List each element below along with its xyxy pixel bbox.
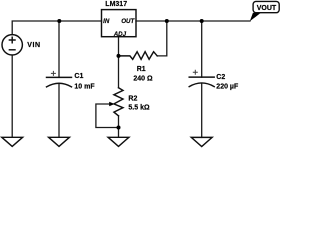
svg-text:5.5 kΩ: 5.5 kΩ — [128, 104, 150, 111]
svg-text:OUT: OUT — [121, 18, 135, 25]
svg-text:VIN: VIN — [27, 42, 40, 49]
ground under R2 — [108, 137, 129, 146]
capacitor C1 plus mark — [51, 71, 56, 76]
voltage source VIN circle — [2, 35, 22, 55]
wire C1 top branch — [58, 21, 60, 77]
wire C2 top branch — [201, 21, 203, 77]
wire LM317 ADJ stub — [118, 37, 120, 56]
op-amp box LM317 U1 — [102, 10, 137, 37]
VIN minus symbol — [9, 49, 15, 51]
capacitor C1 top plate — [47, 76, 72, 78]
wire LM317 OUT to VOUT — [136, 20, 250, 22]
svg-text:C2: C2 — [216, 74, 225, 81]
wire ADJ node down to R2 — [118, 56, 120, 88]
wire C2 bottom to ground — [201, 84, 203, 137]
ground under C2 — [191, 137, 212, 146]
potentiometer R2 zigzag — [114, 88, 123, 116]
wire top rail VIN to LM317 IN — [12, 21, 101, 35]
VOUT flag box — [253, 1, 279, 12]
capacitor C2 top plate — [189, 76, 214, 78]
node dot output rail / R1 — [165, 19, 169, 23]
capacitor C2 plus mark — [193, 70, 198, 75]
wire VIN minus to ground — [11, 55, 13, 137]
ground under VIN — [2, 137, 23, 146]
svg-text:C1: C1 — [74, 73, 83, 80]
svg-text:R2: R2 — [128, 96, 137, 103]
svg-text:LM317: LM317 — [105, 1, 127, 8]
svg-text:220 µF: 220 µF — [216, 83, 239, 90]
potentiometer R2 wiper arrowhead — [109, 102, 114, 106]
node dot ADJ / R1 / R2 — [117, 54, 121, 58]
node dot top rail / C1 — [57, 19, 61, 23]
wire C1 bottom to ground — [58, 84, 60, 137]
svg-text:10 mF: 10 mF — [74, 83, 95, 90]
svg-text:240 Ω: 240 Ω — [133, 75, 153, 82]
VIN plus symbol — [9, 37, 15, 43]
ground under C1 — [49, 137, 70, 146]
VOUT flag pointer — [250, 13, 261, 21]
svg-text:ADJ: ADJ — [113, 31, 127, 38]
wire R1 right leg up to output rail — [157, 21, 167, 56]
capacitor C1 bottom curved plate — [47, 83, 72, 87]
svg-text:R1: R1 — [137, 66, 146, 73]
node dot R2 wiper return — [117, 126, 121, 130]
resistor R1 zigzag — [119, 52, 158, 60]
svg-text:VOUT: VOUT — [257, 5, 277, 12]
node dot output rail / C2 — [200, 19, 204, 23]
svg-text:IN: IN — [103, 18, 110, 25]
capacitor C2 bottom curved plate — [189, 83, 214, 87]
wire R2 wiper return — [96, 104, 119, 128]
wire R2 bottom to ground — [118, 116, 120, 137]
